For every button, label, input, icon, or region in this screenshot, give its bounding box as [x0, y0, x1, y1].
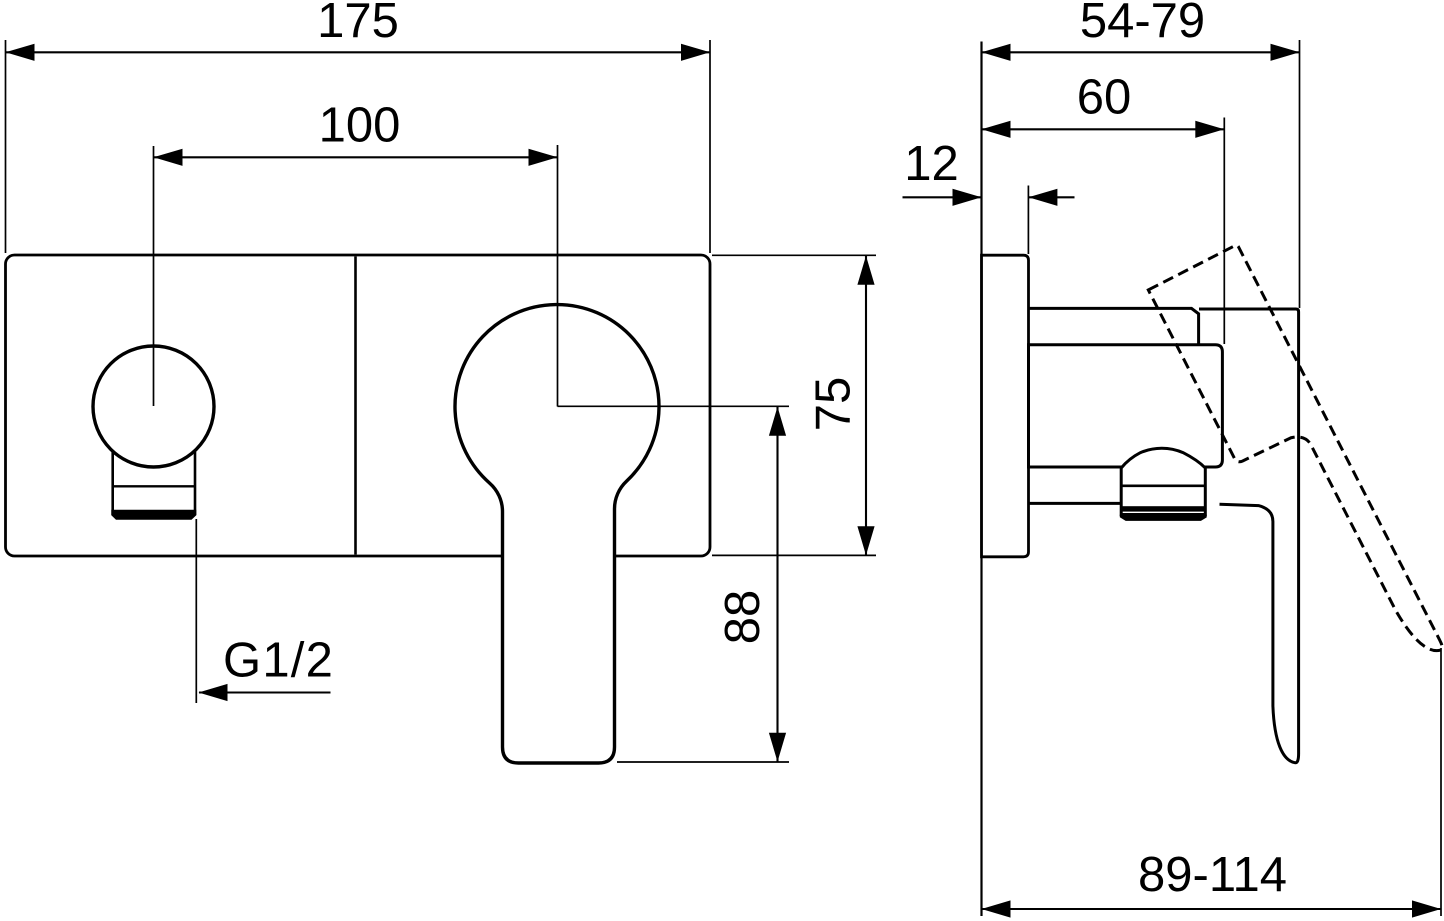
cartridge body (side view) [1029, 345, 1223, 467]
dimension 88 line [776, 407, 778, 762]
dimension 12 arrows (outside, pointing inward) [953, 189, 982, 206]
spout side line lower (thick) [1121, 506, 1205, 511]
wall line (side view) [980, 42, 982, 917]
lever handle dashed (up position, side view) [1148, 244, 1444, 693]
svg-text:54-79: 54-79 [1080, 0, 1205, 48]
dimension 75 line [865, 256, 867, 555]
dimension 175 line [6, 51, 711, 53]
spout body sides (front view) [113, 450, 195, 515]
faceplate divider line [354, 257, 357, 555]
faceplate (front view) [6, 255, 711, 556]
svg-text:12: 12 [904, 137, 959, 191]
svg-text:88: 88 [716, 590, 770, 645]
dimension 54-79 right extension line [1299, 40, 1301, 308]
spout escutcheon circle (front view) [93, 346, 214, 467]
dimension 60 right extension line [1223, 118, 1225, 345]
lever handle solid (down position, side view) [1199, 309, 1299, 763]
dimension 175 arrows [6, 44, 35, 61]
svg-text:100: 100 [319, 99, 401, 153]
spout side thick bottom edge [1120, 515, 1207, 521]
dimension 75 arrows [857, 256, 874, 285]
dimension 88 arrows [769, 407, 786, 436]
svg-text:G1/2: G1/2 [223, 634, 334, 688]
spout thick bottom band (front) [111, 510, 196, 520]
G1/2 extension line [195, 519, 197, 703]
svg-text:175: 175 [317, 0, 399, 48]
dimension 88 extension line bottom [617, 761, 789, 763]
dimension 100 extension lines (to hole centers) [153, 146, 155, 406]
spout supply pipe bottom edge (side view) [1030, 502, 1124, 505]
sleeve (upper connecting pipe, side view) [1029, 308, 1199, 344]
svg-text:75: 75 [807, 377, 861, 432]
svg-text:89-114: 89-114 [1138, 848, 1287, 902]
dimension 100 line [154, 156, 558, 158]
dimension 89-114 arrows [982, 900, 1011, 917]
dimension 175 extension lines [5, 40, 7, 253]
spout line upper (front) [113, 485, 195, 487]
handle keyhole outline (big circle + lever slot, front view) [455, 305, 659, 763]
spout housing with dome top (side view) [1121, 448, 1205, 514]
dimension 60 arrows [982, 121, 1011, 138]
dimension 89-114 right extension line [1440, 648, 1442, 916]
dimension 89-114 line [982, 908, 1442, 910]
dimension 88 extension line top (through handle centre) [558, 405, 790, 407]
dimension 54-79 line [982, 51, 1300, 53]
dimension 12 extension line [1027, 186, 1029, 255]
dimension 54-79 arrows [982, 44, 1011, 61]
wall plate slab (side view) [982, 255, 1029, 557]
dimension 100 arrows [154, 149, 183, 166]
dimension 12 leader lines [903, 196, 982, 198]
svg-text:60: 60 [1077, 71, 1132, 125]
dimension 60 line [982, 128, 1225, 130]
spout side line upper [1121, 484, 1205, 487]
G1/2 leader line [199, 691, 331, 693]
G1/2 leader arrow [199, 684, 228, 701]
dimension 75 extension lines [712, 254, 876, 256]
